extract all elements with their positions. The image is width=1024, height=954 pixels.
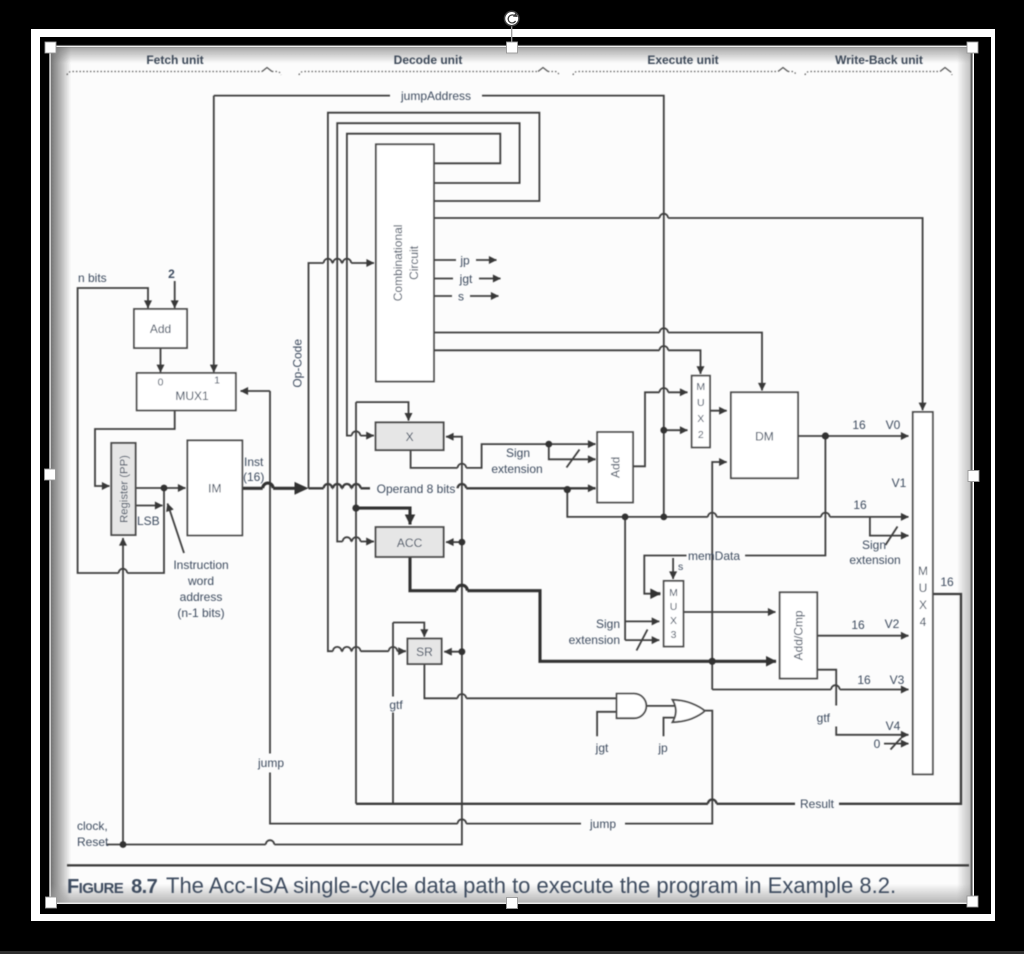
svg-text:jump: jump bbox=[257, 756, 284, 770]
wire: gtf from Add/Cmp to V4 input bbox=[817, 670, 908, 735]
wire: ACC value to V3 input bbox=[712, 661, 908, 689]
wire: jumpAddress horizontal right segment + vertical to operand bus bbox=[482, 96, 664, 517]
brace: fetch unit span bbox=[67, 72, 262, 76]
rotation handle stem bbox=[511, 26, 513, 42]
svg-text:IM: IM bbox=[208, 482, 221, 496]
wire: MUX2 output into DM bbox=[710, 410, 727, 412]
wire: ACC output thick to Add/Cmp bbox=[410, 557, 776, 661]
svg-text:clock,: clock, bbox=[77, 819, 108, 833]
wire: AND to OR bbox=[647, 705, 679, 707]
wire: DM output V0 into MUX4 bbox=[798, 435, 909, 437]
brace: execute unit span bbox=[573, 72, 778, 76]
wire: Result thick branch into ACC top bbox=[356, 508, 410, 524]
svg-text:2: 2 bbox=[698, 429, 704, 441]
brace: write-back unit span bbox=[805, 72, 940, 76]
svg-text:Fetch unit: Fetch unit bbox=[146, 53, 203, 67]
wire: clock branch into ACC bbox=[446, 541, 462, 543]
svg-text:Operand 8 bits: Operand 8 bits bbox=[377, 482, 456, 496]
slash: zero input mark bbox=[891, 738, 902, 750]
svg-text:extension: extension bbox=[491, 462, 542, 476]
svg-text:LSB: LSB bbox=[137, 514, 160, 528]
svg-text:V4: V4 bbox=[886, 719, 901, 733]
slash: V1 sign extension mark bbox=[886, 527, 898, 546]
wire: Result loop into X top bbox=[356, 402, 409, 421]
svg-text:n bits: n bits bbox=[78, 271, 107, 285]
wire: jump vertical bbox=[270, 391, 581, 824]
svg-text:Sign: Sign bbox=[596, 617, 620, 631]
wire: MUX1 output to Register PP bbox=[95, 410, 175, 486]
svg-text:Inst: Inst bbox=[244, 455, 264, 469]
wire: LSB stub bbox=[136, 505, 163, 507]
svg-text:U: U bbox=[919, 581, 928, 595]
slash: sign extension bus mark bbox=[567, 450, 580, 468]
svg-text:SR: SR bbox=[416, 645, 433, 659]
rotation handle bbox=[505, 11, 519, 25]
svg-text:16: 16 bbox=[857, 673, 871, 687]
svg-text:M: M bbox=[918, 564, 928, 578]
box: Add (PC incrementer) bbox=[134, 309, 187, 348]
svg-text:16: 16 bbox=[940, 575, 954, 589]
wire: jgt output bbox=[434, 278, 453, 280]
gate: OR (jp) bbox=[673, 700, 705, 722]
wire: PC feedback loop (n bits) bbox=[78, 288, 164, 573]
box: Add (sign extension adder) bbox=[597, 432, 633, 502]
svg-text:V2: V2 bbox=[885, 617, 900, 631]
svg-text:word: word bbox=[187, 574, 214, 588]
svg-text:16: 16 bbox=[852, 418, 866, 432]
box: Combinational Circuit bbox=[376, 144, 434, 381]
slash: MUX3 sign extension mark bbox=[637, 630, 648, 651]
svg-text:Add: Add bbox=[608, 457, 622, 478]
svg-text:1: 1 bbox=[214, 375, 220, 387]
svg-text:U: U bbox=[670, 601, 678, 613]
svg-text:Combinational: Combinational bbox=[391, 225, 405, 302]
wire: Result loop into SR top bbox=[393, 623, 424, 637]
caption rule bbox=[67, 864, 969, 866]
wire: constant 0 into MUX4 bbox=[884, 743, 909, 745]
svg-text:gtf: gtf bbox=[817, 711, 831, 725]
wire: Op-Code vertical and into Combinational Circuit bbox=[309, 263, 375, 488]
svg-text:jp: jp bbox=[657, 741, 668, 755]
wire: MUX3 input direct bbox=[625, 620, 659, 622]
wire: clock branch into SR bbox=[444, 651, 462, 653]
wire: control loop 3 (inner) to X enable bbox=[347, 134, 500, 436]
wire: sign-extended branch into Add bbox=[549, 444, 596, 459]
wire: operand branch down to MUX3 bbox=[624, 517, 626, 640]
box: X register bbox=[376, 422, 444, 450]
svg-text:jp: jp bbox=[459, 254, 470, 268]
svg-text:V0: V0 bbox=[886, 418, 901, 432]
svg-text:M: M bbox=[669, 587, 678, 599]
wire: control line to MUX2 select bbox=[434, 350, 701, 374]
wire: SR output to AND gate bbox=[424, 664, 616, 698]
box: SR status register bbox=[408, 639, 442, 664]
wire: control loop 2 (middle) to ACC enable bbox=[337, 123, 519, 541]
svg-text:Decode unit: Decode unit bbox=[394, 53, 463, 67]
wire: Add to MUX1 bbox=[160, 348, 162, 372]
svg-text:Op-Code: Op-Code bbox=[291, 339, 305, 388]
wire: jgt input stub bbox=[597, 712, 617, 736]
box: Register (PP) bbox=[111, 443, 135, 535]
box: ACC register bbox=[376, 527, 444, 557]
wire: X output to sign-extension Add bbox=[411, 444, 596, 468]
wire: control line to MUX4 select bbox=[434, 218, 923, 410]
gate: AND (jgt) bbox=[617, 694, 647, 719]
brace: decode unit span bbox=[299, 72, 538, 76]
svg-text:Execute unit: Execute unit bbox=[647, 53, 718, 67]
svg-text:Sign: Sign bbox=[862, 538, 886, 552]
svg-text:3: 3 bbox=[671, 629, 677, 641]
svg-text:U: U bbox=[697, 397, 705, 409]
wire: Add output into MUX2 bbox=[633, 392, 688, 466]
svg-text:Add: Add bbox=[150, 322, 171, 336]
svg-text:16: 16 bbox=[853, 498, 867, 512]
box: MUX1 bbox=[137, 373, 236, 410]
wire: s select into MUX3 bbox=[672, 558, 674, 579]
svg-text:2: 2 bbox=[168, 267, 175, 281]
box: MUX3 bbox=[664, 581, 684, 647]
svg-text:Circuit: Circuit bbox=[407, 245, 421, 280]
box: DM data memory bbox=[731, 392, 798, 478]
svg-text:jgt: jgt bbox=[595, 741, 609, 755]
svg-text:The Acc-ISA single-cycle data: The Acc-ISA single-cycle data path to ex… bbox=[166, 873, 896, 898]
svg-text:4: 4 bbox=[920, 615, 927, 629]
svg-text:jump: jump bbox=[589, 817, 616, 831]
svg-text:Sign: Sign bbox=[506, 446, 530, 460]
svg-text:(n-1 bits): (n-1 bits) bbox=[177, 606, 224, 620]
wire: operand V1 run into MUX4 bbox=[567, 490, 908, 517]
wire: operand 8 bits bus bbox=[309, 487, 371, 489]
wire: control loop 1 (outer) to SR enable bbox=[328, 113, 540, 652]
box: MUX4 bbox=[913, 412, 933, 774]
wire: clock/Reset run to register clock column bbox=[107, 437, 462, 845]
wire: Inst(16) thick bus from IM bbox=[242, 487, 294, 490]
svg-text:FIGURE 8.7: FIGURE 8.7 bbox=[67, 876, 158, 898]
wire: memData left segment into MUX3 bbox=[644, 556, 686, 594]
svg-text:0: 0 bbox=[874, 737, 881, 751]
svg-text:(16): (16) bbox=[243, 470, 264, 484]
wire: Result write-back spine bbox=[355, 402, 357, 804]
wire: MUX4 output Result bbox=[356, 594, 961, 804]
wire: Add/Cmp V2 output into MUX4 bbox=[817, 635, 908, 637]
svg-text:X: X bbox=[919, 598, 927, 612]
svg-text:ACC: ACC bbox=[397, 536, 423, 550]
svg-text:Add/Cmp: Add/Cmp bbox=[792, 610, 806, 660]
box: MUX2 bbox=[692, 376, 710, 448]
wire: clock up into Register PP bbox=[122, 538, 124, 845]
svg-text:V3: V3 bbox=[890, 673, 905, 687]
svg-text:gtf: gtf bbox=[389, 698, 403, 712]
wire: MUX3 input sign-extended bbox=[625, 639, 659, 641]
wire: jp output bbox=[434, 259, 456, 261]
svg-text:M: M bbox=[696, 381, 705, 393]
wire: V1 sign-extension branch bbox=[870, 517, 909, 536]
svg-text:Register (PP): Register (PP) bbox=[118, 455, 130, 523]
wire: gtf vertical below SR loop bbox=[392, 623, 394, 804]
svg-text:Result: Result bbox=[800, 797, 835, 811]
bottom light strip bbox=[0, 951, 1024, 954]
svg-text:jgt: jgt bbox=[459, 272, 473, 286]
svg-text:X: X bbox=[670, 615, 677, 627]
svg-text:X: X bbox=[697, 413, 704, 425]
svg-text:extension: extension bbox=[849, 553, 900, 567]
wire: jumpAddress horizontal left segment bbox=[214, 95, 390, 97]
big bus arrowhead bbox=[295, 482, 309, 495]
svg-text:Write-Back unit: Write-Back unit bbox=[835, 53, 923, 67]
wire: jump into MUX1 right input bbox=[241, 390, 271, 392]
wire: s output bbox=[434, 295, 452, 297]
svg-text:16: 16 bbox=[851, 618, 865, 632]
svg-text:s: s bbox=[458, 290, 464, 304]
wire: jump horizontal right + OR gate output down bbox=[625, 711, 712, 824]
svg-text:s: s bbox=[678, 561, 683, 573]
svg-text:V1: V1 bbox=[892, 476, 907, 490]
wire: jp input stub bbox=[664, 718, 677, 737]
svg-text:Reset: Reset bbox=[77, 835, 109, 849]
svg-text:extension: extension bbox=[569, 633, 620, 647]
wire: constant 2 into Add bbox=[174, 281, 176, 308]
svg-text:jumpAddress: jumpAddress bbox=[400, 89, 471, 103]
svg-text:DM: DM bbox=[755, 430, 774, 444]
svg-text:address: address bbox=[180, 590, 223, 604]
wire: control line to DM write bbox=[434, 333, 762, 391]
wire: memData from DM output down and left bbox=[745, 436, 825, 556]
wire: ACC data up into DM bbox=[712, 462, 727, 661]
wire: jumpAddress down into MUX1 input 1 bbox=[213, 96, 215, 373]
wire: Register PP to IM bbox=[136, 487, 186, 489]
wire: operand into MUX2 input 1 bbox=[664, 429, 688, 431]
svg-text:memData: memData bbox=[688, 549, 740, 563]
pointer: instruction word address callout bbox=[168, 504, 185, 554]
svg-text:MUX1: MUX1 bbox=[175, 389, 209, 403]
svg-text:0: 0 bbox=[158, 377, 164, 389]
wire: MUX3 output into Add/Cmp bbox=[683, 611, 775, 613]
svg-text:X: X bbox=[406, 430, 414, 444]
box: Add/Cmp bbox=[780, 592, 818, 678]
box: IM instruction memory bbox=[187, 440, 242, 535]
svg-text:Instruction: Instruction bbox=[173, 558, 228, 572]
